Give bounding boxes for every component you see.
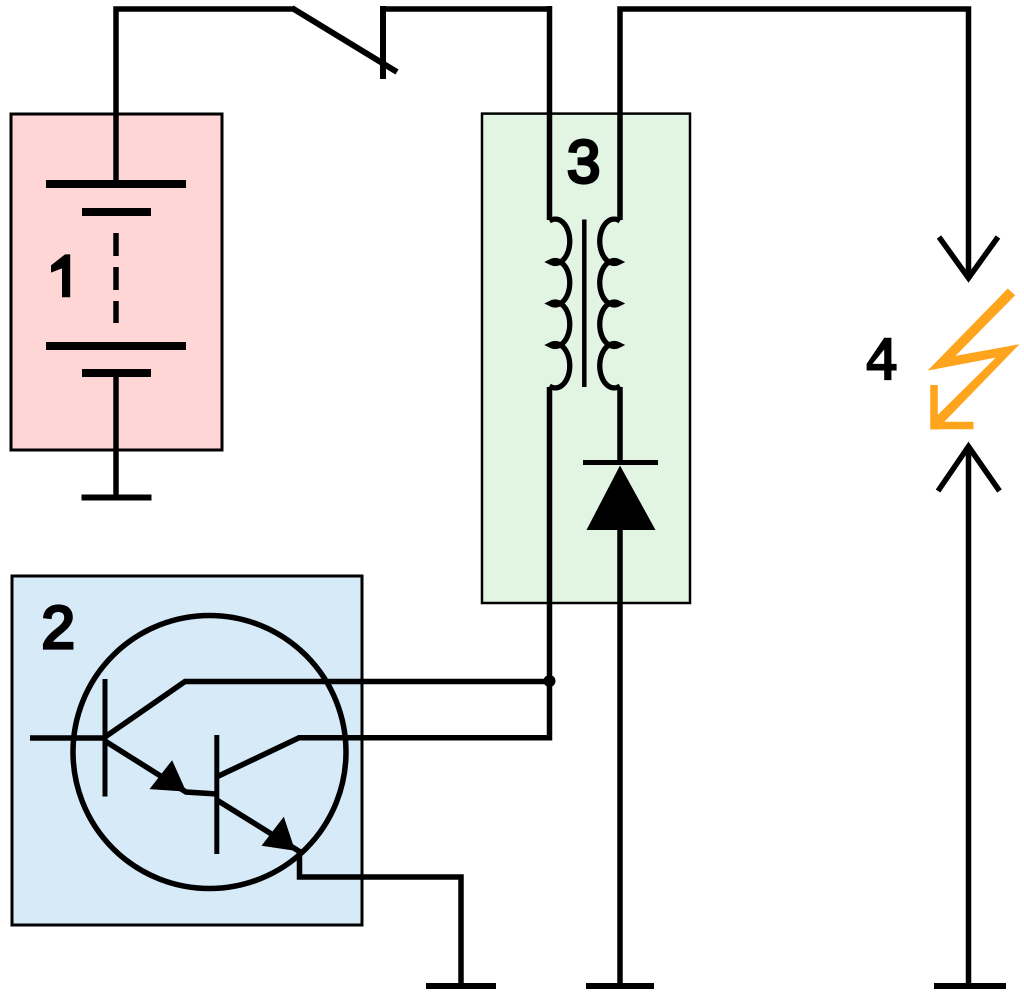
battery cell bar long top bbox=[46, 180, 186, 188]
transformer block box 3 bbox=[482, 114, 690, 603]
wire diode to ground bbox=[617, 528, 623, 986]
transistor Q1 emitter arrow bbox=[150, 760, 187, 791]
wire battery top lead bbox=[116, 9, 294, 186]
junction node bbox=[544, 675, 556, 687]
battery block box 1 bbox=[11, 114, 222, 450]
transformer core bbox=[582, 220, 587, 388]
switch blade S1 bbox=[292, 8, 397, 72]
label 4 bbox=[867, 338, 897, 380]
arrow down into flash tube bbox=[939, 237, 998, 278]
transistor Q2 emitter bbox=[217, 800, 461, 986]
diode D1 cathode bar bbox=[583, 460, 658, 465]
transistor Q1 base bar bbox=[103, 679, 108, 797]
wire battery negative lead bbox=[113, 373, 119, 495]
label 1 bbox=[51, 254, 70, 297]
transistor circle bbox=[73, 616, 346, 889]
wire primary bottom lead bbox=[547, 387, 553, 681]
battery cell bar short bottom bbox=[82, 369, 151, 377]
transistor Q2 collector bbox=[218, 681, 550, 777]
wire primary top lead bbox=[547, 6, 553, 220]
transistor Q1 collector bbox=[105, 682, 550, 738]
darlington block box 2 bbox=[12, 576, 362, 925]
flash bolt arrowhead bracket bbox=[931, 385, 974, 430]
diode D1 triangle bbox=[587, 466, 656, 531]
transformer primary winding bbox=[550, 219, 570, 388]
battery cell bar long bottom bbox=[46, 342, 186, 350]
flash bolt 4 bbox=[928, 289, 1020, 427]
transistor Q1 emitter bbox=[105, 741, 217, 794]
ground diode bbox=[586, 983, 654, 989]
wire switch to transformer primary bbox=[383, 6, 550, 12]
transistor Q2 emitter arrow bbox=[262, 817, 296, 851]
svg-text:3: 3 bbox=[567, 128, 600, 195]
switch contact bbox=[380, 6, 386, 79]
svg-text:2: 2 bbox=[42, 594, 75, 661]
wire flash tube bottom to ground bbox=[966, 447, 972, 987]
transformer secondary winding bbox=[600, 219, 620, 388]
transistor Q1 base lead bbox=[30, 735, 105, 741]
arrow up into flash tube bbox=[938, 447, 1000, 492]
battery dashed cells line bbox=[113, 233, 119, 323]
transistor Q2 base bar bbox=[214, 735, 219, 854]
wire secondary to diode bbox=[617, 387, 623, 461]
ground battery bbox=[82, 495, 152, 501]
ground flash tube bbox=[934, 983, 1006, 989]
wire secondary top lead to flash tube bbox=[620, 9, 969, 276]
battery cell bar short top bbox=[82, 208, 151, 216]
ground emitter bbox=[426, 983, 496, 989]
